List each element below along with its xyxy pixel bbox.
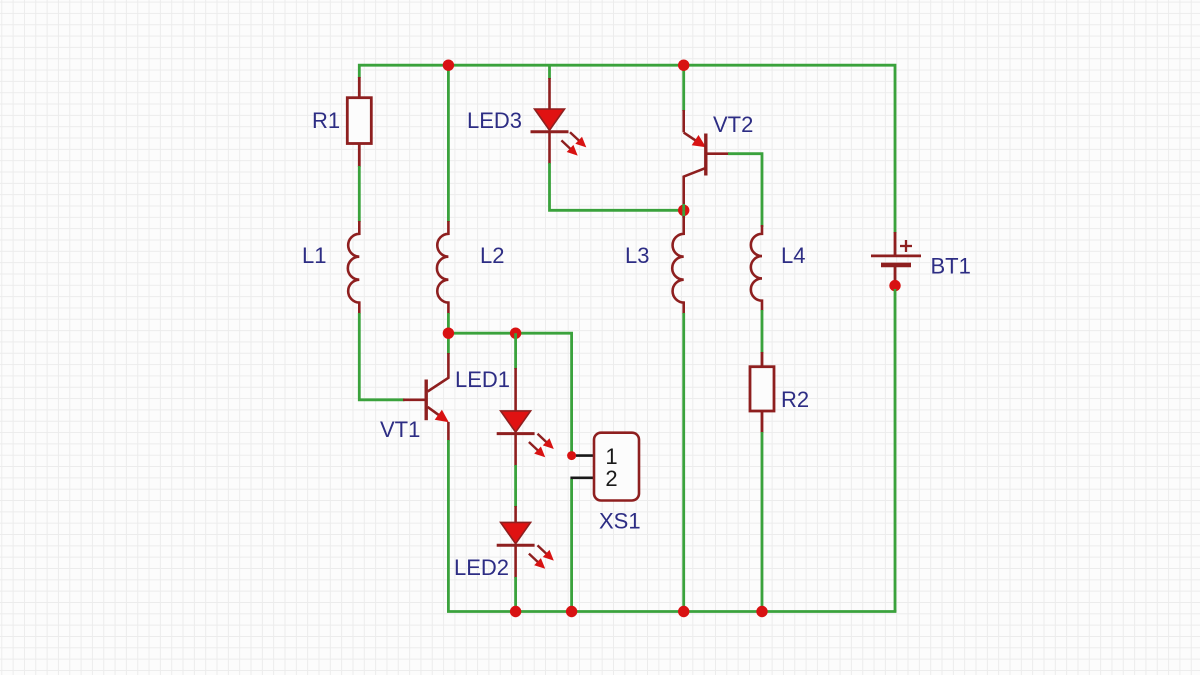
wire node to L3 [682,210,685,218]
svg-text:LED3: LED3 [467,108,522,133]
svg-text:L3: L3 [625,243,649,268]
svg-text:L1: L1 [302,243,326,268]
wire battery to bottom rail [894,289,897,612]
led LED2 [497,506,554,578]
wire LED1 to LED2 [514,465,517,507]
wire R1 to L1 [358,166,361,222]
battery BT1 [871,232,921,283]
inductor L4 [751,225,762,311]
connector XS1 [594,433,639,501]
svg-text:R1: R1 [312,108,340,133]
wire collector node rail to XS1 pin1 [448,333,571,452]
wire L2 to collector node [447,313,450,333]
svg-text:BT1: BT1 [931,254,971,279]
svg-text:VT2: VT2 [713,112,753,137]
wire VT1 emitter to bottom rail [447,440,450,612]
svg-text:LED2: LED2 [454,555,509,580]
junction node on top rail at L2 column [443,59,454,70]
node battery negative [889,280,900,291]
wire XS1 pin2 drop [570,479,573,612]
svg-text:2: 2 [605,466,617,491]
wire LED1 anode drop [514,333,517,369]
svg-text:L4: L4 [781,243,805,268]
transistor VT1 [403,353,449,441]
junction node bottom at LED2 [510,606,521,617]
svg-text:L2: L2 [480,243,504,268]
wire top rail to VT2 emitter [682,65,685,111]
node XS1 pin1 [567,451,576,460]
led LED1 [497,368,554,466]
junction node at VT1 collector [443,328,454,339]
svg-text:LED1: LED1 [455,367,510,392]
resistor R1 [347,77,371,167]
pin 1 lead [576,454,595,457]
wire L3 to bottom rail [682,313,685,612]
wire collector drop [447,333,450,354]
wire LED3 tap [548,65,551,79]
junction node bottom at XS1 column [566,606,577,617]
wire LED3 cathode to VT2 collector node [550,163,684,210]
wire top rail to L2 [447,65,450,222]
wire VT2 collector to node [682,204,685,210]
junction node on top rail at VT2 column [678,59,689,70]
svg-text:XS1: XS1 [599,509,641,534]
svg-text:R2: R2 [781,387,809,412]
junction node at LED1 anode [510,328,521,339]
pin 2 lead [570,476,595,479]
wire L1 to VT1 base [359,313,404,400]
inductor L2 [437,221,448,314]
junction node bottom at R2 column [756,606,767,617]
inductor L1 [348,221,359,314]
wire L4 to R2 [761,310,764,353]
wire bottom rail [447,610,896,613]
wire LED2 to bottom rail [514,577,517,612]
wire VT2 base to L4 [728,154,762,227]
wire R2 to bottom rail [761,432,764,612]
transistor VT2 [684,110,729,206]
wire top rail [359,65,895,233]
junction node at VT2 collector [678,205,689,216]
svg-text:VT1: VT1 [380,417,420,442]
led LED3 [531,78,587,164]
junction node bottom at L3 column [678,606,689,617]
resistor R2 [750,352,774,433]
inductor L3 [672,216,683,314]
